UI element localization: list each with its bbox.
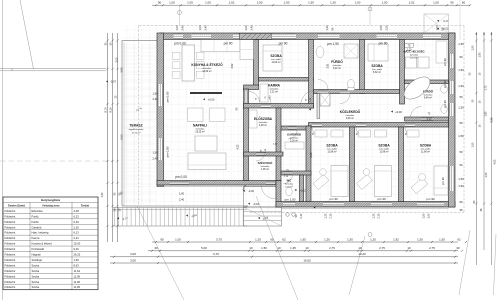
svg-text:pm 30: pm 30 (377, 197, 386, 201)
pavement edge south (281, 207, 449, 209)
svg-text:burkolata: burkolata (346, 114, 355, 117)
wall bath1 | bedroom n (360, 40, 365, 94)
door gap corridor-bedroom2 (356, 123, 366, 127)
svg-text:1,50: 1,50 (458, 84, 464, 88)
svg-text:2,20 m²: 2,20 m² (285, 185, 293, 188)
svg-text:62: 62 (282, 237, 286, 241)
svg-text:1,50: 1,50 (458, 106, 464, 110)
svg-text:11,96 m²: 11,96 m² (327, 151, 336, 154)
svg-text:1,50: 1,50 (261, 246, 267, 250)
svg-text:Földszint: Földszint (5, 285, 16, 289)
exterior wall vestibule west jog (276, 181, 281, 208)
svg-text:5,00: 5,00 (201, 246, 207, 250)
svg-text:6,49 m²: 6,49 m² (424, 97, 432, 100)
svg-text:3,90: 3,90 (120, 67, 124, 73)
svg-text:lam. padló: lam. padló (372, 69, 382, 71)
svg-text:1,20: 1,20 (324, 237, 330, 241)
svg-text:KONYHA & ÉTKEZŐ: KONYHA & ÉTKEZŐ (191, 62, 223, 67)
svg-text:6,22 m²: 6,22 m² (333, 67, 341, 70)
svg-text:lam. padló: lam. padló (379, 149, 389, 151)
svg-text:1,50: 1,50 (458, 177, 464, 181)
svg-text:1,00: 1,00 (435, 25, 439, 31)
svg-text:Szoba: Szoba (32, 274, 40, 278)
svg-text:50: 50 (459, 55, 463, 59)
svg-text:1,96: 1,96 (74, 258, 80, 262)
datum circle top mid (368, 7, 372, 11)
level marker -0,02 east of porch (295, 189, 297, 191)
svg-text:3,62: 3,62 (231, 63, 234, 68)
wall bath2 south (405, 117, 449, 121)
datum circle top left (178, 11, 182, 15)
door gap living-hall (244, 91, 248, 103)
svg-text:ELŐSZOBA: ELŐSZOBA (254, 116, 273, 121)
svg-text:1,50: 1,50 (308, 1, 314, 5)
svg-text:26,25: 26,25 (74, 253, 81, 257)
svg-text:pm 0,00: pm 0,00 (166, 146, 170, 157)
window bathroom north (318, 34, 340, 39)
svg-text:8,63: 8,63 (74, 263, 80, 267)
window utility north (423, 34, 441, 39)
eaves dashed outline (139, 25, 464, 27)
svg-text:1,50: 1,50 (427, 213, 430, 218)
svg-text:11,96: 11,96 (74, 274, 81, 278)
svg-text:90: 90 (160, 237, 164, 241)
svg-text:SZOBA: SZOBA (326, 144, 338, 148)
svg-text:10: 10 (277, 246, 281, 250)
svg-text:1,50: 1,50 (472, 45, 475, 50)
svg-text:Szoba: Szoba (32, 263, 40, 267)
svg-text:60: 60 (462, 1, 466, 5)
svg-text:16,50: 16,50 (303, 258, 311, 262)
svg-text:60: 60 (459, 200, 463, 204)
svg-text:pm 1,00: pm 1,00 (285, 198, 296, 202)
bedroom n bed (368, 44, 388, 61)
door size label hazt (405, 43, 414, 47)
svg-text:burkolata: burkolata (259, 121, 268, 124)
entry door south gap (266, 181, 275, 184)
svg-text:FÜRDŐ: FÜRDŐ (423, 89, 434, 94)
wall hall north (pantry bottom) (244, 104, 314, 109)
svg-text:Emelet (Szint): Emelet (Szint) (8, 203, 25, 207)
svg-text:pm 90: pm 90 (443, 100, 447, 108)
svg-text:2,21 m²: 2,21 m² (270, 91, 278, 94)
svg-text:10: 10 (407, 246, 411, 250)
svg-text:26,25 m²: 26,25 m² (195, 131, 204, 134)
wall bedroom2 | bedroom3 (399, 127, 404, 202)
svg-text:1,05: 1,05 (187, 1, 193, 5)
svg-text:4,32: 4,32 (237, 144, 240, 149)
svg-text:pm 90: pm 90 (426, 197, 435, 201)
wall hall | vestibule divider (244, 152, 284, 156)
wall utility | bath2 divider (405, 80, 449, 84)
svg-text:NAPPALI: NAPPALI (193, 124, 207, 128)
window living west lower (158, 138, 163, 160)
bedroom2 desk and chair (357, 174, 373, 189)
door gap corridor-bedroom n (340, 90, 350, 93)
svg-text:1,50: 1,50 (439, 237, 445, 241)
window east utility (449, 54, 454, 68)
svg-text:burkolata: burkolata (285, 182, 294, 185)
svg-text:2,40: 2,40 (152, 97, 158, 101)
flag wc corner (314, 206, 316, 208)
svg-text:1,50: 1,50 (417, 237, 423, 241)
svg-text:1,50: 1,50 (152, 151, 158, 155)
svg-text:2,75: 2,75 (429, 246, 435, 250)
exterior wall east (449, 33, 456, 207)
level marker -2,77 (117, 217, 119, 219)
exterior wall north (160, 33, 455, 40)
svg-text:3,00: 3,00 (116, 57, 119, 62)
svg-text:2,21: 2,21 (74, 236, 80, 240)
svg-text:1,62: 1,62 (229, 1, 235, 5)
svg-text:pm 0,00: pm 0,00 (174, 42, 186, 46)
svg-text:burkolata: burkolata (424, 94, 433, 97)
svg-text:burkolata: burkolata (290, 137, 299, 140)
svg-text:Földszint: Földszint (5, 280, 16, 284)
svg-text:Szoba: Szoba (32, 280, 40, 284)
svg-text:Földszint: Földszint (5, 231, 16, 235)
svg-text:8,62 m²: 8,62 m² (373, 71, 381, 74)
pantry shelves (260, 84, 268, 102)
svg-text:Szoba: Szoba (32, 269, 40, 273)
svg-text:SZOBA: SZOBA (420, 144, 432, 148)
svg-text:Földszint: Földszint (5, 214, 16, 218)
window east bedroom3 (449, 166, 454, 191)
level marker -0,04 porch (248, 203, 250, 205)
svg-text:9,46: 9,46 (74, 247, 80, 251)
svg-text:10: 10 (249, 246, 253, 250)
door living south (terrace) (170, 181, 189, 184)
terrain diagonal lower-left (137, 206, 184, 300)
svg-text:65: 65 (270, 237, 274, 241)
svg-text:Konyha & étkező: Konyha & étkező (32, 242, 53, 246)
svg-text:+0,00: +0,00 (395, 110, 402, 114)
svg-text:Fürdő: Fürdő (32, 214, 40, 218)
bottom chain 3 (110, 256, 458, 258)
living sofa (188, 153, 226, 170)
window north small (233, 34, 240, 39)
svg-text:2,40: 2,40 (180, 25, 184, 31)
window kitchen north (174, 34, 184, 39)
svg-text:8,10: 8,10 (109, 107, 113, 113)
door gap hall-pantry (261, 104, 271, 108)
svg-text:2,10: 2,10 (427, 118, 432, 121)
svg-text:1,50: 1,50 (284, 1, 290, 5)
door gap hall-vestibule (256, 153, 266, 156)
canopy level -0,02 (437, 28, 439, 30)
svg-text:1,50: 1,50 (458, 184, 464, 188)
svg-text:pm 90: pm 90 (379, 42, 388, 46)
terrain diagonal below porch (256, 196, 298, 300)
svg-text:pm 1,90: pm 1,90 (327, 42, 339, 46)
corridor thin wall + cupboard (317, 94, 320, 119)
wall hall | wardrobe/wc (276, 108, 281, 181)
svg-text:62: 62 (457, 237, 461, 241)
svg-text:11,96: 11,96 (74, 285, 81, 289)
svg-text:1,50: 1,50 (379, 25, 383, 31)
svg-text:Földszint: Földszint (5, 247, 16, 251)
svg-text:50: 50 (459, 150, 463, 154)
level marker +0,00 corridor (391, 110, 393, 112)
svg-text:1,20: 1,20 (325, 25, 329, 31)
svg-text:4,48 m²: 4,48 m² (259, 124, 267, 127)
svg-text:Földszint: Földszint (5, 236, 16, 240)
wall bedroom n | utility (400, 40, 405, 105)
svg-text:1,75: 1,75 (485, 85, 488, 90)
svg-text:5,00: 5,00 (120, 134, 124, 140)
svg-text:TERASZ: TERASZ (129, 124, 142, 128)
bath1 toilet (348, 79, 355, 88)
svg-text:1,00: 1,00 (175, 237, 181, 241)
svg-text:6,03: 6,03 (310, 152, 313, 157)
svg-text:SZOBA: SZOBA (270, 54, 282, 58)
svg-text:6,13 m²: 6,13 m² (410, 57, 418, 60)
svg-text:burkolata: burkolata (203, 67, 212, 70)
svg-text:Szoba: Szoba (32, 285, 40, 289)
svg-text:-0,02: -0,02 (300, 188, 306, 192)
top dimension chain line (152, 4, 470, 6)
svg-text:KÖZLEKEDŐ: KÖZLEKEDŐ (340, 109, 361, 114)
door gap corridor-bedroom3 (405, 123, 415, 127)
svg-text:2,75: 2,75 (329, 246, 335, 250)
svg-text:Földszint: Földszint (5, 274, 16, 278)
garden steps strip south (113, 207, 247, 209)
wall corridor north (bath1/bedroom bottoms) (314, 90, 400, 94)
window east bath2 b (449, 103, 454, 116)
svg-text:pm 90: pm 90 (443, 58, 447, 66)
svg-text:2,10: 2,10 (407, 49, 412, 52)
terrain diagonal far right (459, 230, 470, 295)
svg-text:1,35: 1,35 (290, 246, 296, 250)
svg-text:pm 90: pm 90 (279, 42, 288, 46)
svg-text:2,26: 2,26 (74, 225, 80, 229)
svg-text:pm 90: pm 90 (224, 42, 233, 46)
svg-text:1,20: 1,20 (255, 237, 261, 241)
level marker +0,00 living (203, 98, 205, 100)
svg-text:1,50: 1,50 (384, 25, 388, 31)
svg-text:Földszint: Földszint (5, 253, 16, 257)
svg-text:4,48: 4,48 (74, 209, 80, 213)
level marker -0,02 porch (243, 190, 245, 192)
svg-text:36: 36 (459, 208, 463, 212)
svg-text:Fürdő: Fürdő (32, 220, 40, 224)
svg-text:6,49: 6,49 (74, 220, 80, 224)
door gap wardrobe (288, 127, 297, 130)
svg-text:1,50: 1,50 (382, 1, 388, 5)
window east bath2 a (449, 81, 454, 94)
svg-text:1,20: 1,20 (370, 237, 376, 241)
svg-text:11,64 m²: 11,64 m² (271, 61, 280, 64)
svg-text:1,00: 1,00 (169, 1, 175, 5)
bedroom1 desk and chair (313, 174, 329, 189)
svg-text:2,75: 2,75 (379, 246, 385, 250)
svg-text:3,00: 3,00 (130, 252, 136, 256)
terrace grid (paving) (125, 44, 127, 204)
site boundary diagonal top-left (20, 0, 34, 69)
svg-text:Előszoba: Előszoba (32, 209, 44, 213)
canopy level -0,17 (437, 20, 439, 22)
svg-text:SZOBA: SZOBA (371, 64, 383, 68)
svg-text:15,00: 15,00 (74, 242, 81, 246)
svg-text:pm 0,00: pm 0,00 (166, 91, 170, 102)
wall bedroom1 | bedroom2 (350, 127, 355, 202)
svg-text:burkolata: burkolata (261, 165, 270, 168)
entrance porch steps (244, 207, 282, 226)
svg-text:1,50: 1,50 (458, 68, 464, 72)
right chain lines (475, 32, 477, 265)
svg-text:11,96: 11,96 (74, 280, 81, 284)
bottom chain 1 (152, 241, 458, 243)
svg-text:Helyiséglista: Helyiséglista (41, 198, 60, 202)
svg-text:1,52: 1,52 (409, 1, 415, 5)
svg-text:Földszint: Földszint (5, 269, 16, 273)
window bedroom1 north (272, 34, 296, 39)
svg-text:1,50: 1,50 (423, 213, 426, 218)
kitchen tall unit (240, 40, 254, 60)
svg-text:3,00: 3,00 (130, 258, 136, 262)
wardrobe closet (285, 142, 304, 149)
svg-text:50: 50 (459, 163, 463, 167)
wall wardrobe north (276, 126, 311, 130)
svg-text:-0,02: -0,02 (248, 189, 254, 193)
wc toilet (286, 187, 292, 196)
wall hall/wardrobe | bedroom1 (306, 126, 311, 202)
svg-text:pm 90: pm 90 (441, 177, 445, 185)
living rug bar (190, 92, 222, 94)
datum circle bottom (368, 233, 372, 237)
level marker -0,19 porch (258, 217, 260, 219)
bath1 sink (316, 47, 324, 58)
svg-text:30: 30 (456, 246, 460, 250)
exterior wall south of bedrooms (276, 202, 455, 208)
svg-text:1,00: 1,00 (179, 192, 185, 196)
dining table (182, 45, 195, 81)
svg-text:10: 10 (305, 246, 309, 250)
svg-text:burkolata: burkolata (196, 128, 205, 131)
bath2 tub (400, 73, 434, 104)
bath2 toilet (441, 105, 447, 114)
svg-text:-0,04: -0,04 (253, 202, 259, 206)
living armchair 2 (210, 108, 226, 122)
svg-text:1,50: 1,50 (485, 172, 488, 177)
door gap corridor-bedroom1 (312, 123, 322, 127)
level marker -0,07 (106, 80, 108, 82)
svg-text:8,70: 8,70 (104, 107, 108, 113)
svg-text:9,46 m²: 9,46 m² (346, 117, 354, 120)
svg-text:1,00: 1,00 (433, 1, 439, 5)
exterior wall west (157, 33, 164, 187)
bedroom2 bed (375, 166, 392, 197)
svg-text:Közlekedő: Közlekedő (32, 247, 45, 251)
svg-text:pm 0,00: pm 0,00 (175, 175, 187, 179)
entry door arc out (261, 185, 275, 199)
svg-text:Helyiség neve: Helyiség neve (43, 203, 61, 207)
svg-text:10,20: 10,20 (358, 252, 366, 256)
svg-text:2,10: 2,10 (329, 213, 332, 218)
svg-text:1,90: 1,90 (479, 52, 482, 57)
svg-text:Földszint: Földszint (5, 220, 16, 224)
door gap corridor-bath1 (318, 90, 328, 93)
svg-text:lam. padló: lam. padló (271, 59, 281, 61)
wall kitchen | room1/pantry (254, 40, 259, 86)
exterior wall south of living room (157, 181, 276, 186)
svg-text:3,70: 3,70 (216, 237, 222, 241)
svg-text:1,50: 1,50 (355, 1, 361, 5)
wall living | hall/vestibule (244, 89, 249, 181)
svg-text:Földszint: Földszint (5, 209, 16, 213)
svg-text:6,13: 6,13 (74, 231, 80, 235)
svg-text:1,50: 1,50 (458, 42, 464, 46)
svg-text:Kamra: Kamra (32, 236, 40, 240)
svg-text:KAMRA: KAMRA (268, 84, 281, 88)
svg-text:Földszint: Földszint (5, 263, 16, 267)
bedroom1 bed (331, 166, 348, 197)
svg-text:Házt. helyiség: Házt. helyiség (32, 231, 49, 235)
svg-text:1,50: 1,50 (152, 92, 158, 96)
svg-text:6,23: 6,23 (74, 214, 80, 218)
svg-text:1,20: 1,20 (325, 213, 328, 218)
door arc eloszoba-corridor (301, 90, 318, 107)
svg-text:1,50: 1,50 (458, 134, 464, 138)
svg-text:FÜRDŐ: FÜRDŐ (331, 59, 343, 64)
svg-text:2,40: 2,40 (152, 156, 158, 160)
window south bedroom3 (417, 202, 444, 206)
window south wc small (283, 202, 295, 206)
dash-dot setback line left (0, 160, 113, 162)
canopy outline NE (424, 14, 449, 33)
svg-text:11,96 m²: 11,96 m² (379, 151, 388, 154)
window bedroom2 north (377, 34, 398, 39)
terrain diagonal right-center (349, 236, 365, 295)
svg-text:50: 50 (459, 95, 463, 99)
svg-text:4,55: 4,55 (494, 159, 497, 164)
svg-text:Szélfogó: Szélfogó (32, 258, 43, 262)
terrain line right edge (494, 234, 497, 295)
svg-text:1,50: 1,50 (472, 142, 475, 147)
north wall dark pier (240, 33, 273, 39)
svg-text:15,00 m²: 15,00 m² (202, 70, 211, 73)
svg-text:50: 50 (459, 121, 463, 125)
level marker -1,64 steps (186, 214, 188, 216)
dim extension line top right (459, 0, 461, 40)
svg-text:2,40: 2,40 (179, 197, 185, 201)
svg-text:1,00: 1,00 (175, 25, 179, 31)
svg-text:1,96 m²: 1,96 m² (261, 168, 269, 171)
svg-text:2,40: 2,40 (203, 25, 207, 31)
wall room1/pantry divider (259, 78, 314, 82)
svg-text:3,81: 3,81 (327, 63, 330, 68)
svg-text:1,20: 1,20 (330, 1, 336, 5)
wall wc east (300, 175, 304, 202)
living armchair 1 (188, 108, 204, 122)
svg-text:11,96 m²: 11,96 m² (421, 151, 430, 154)
svg-text:1,00: 1,00 (244, 25, 248, 31)
svg-text:Földszint: Földszint (5, 258, 16, 262)
window kitchen north 2 (192, 34, 212, 39)
terrace outline (122, 40, 157, 42)
svg-text:2,40: 2,40 (249, 25, 253, 31)
downspout circles (286, 213, 290, 217)
svg-text:lam. padló: lam. padló (421, 149, 431, 151)
svg-text:WC: WC (287, 178, 292, 182)
svg-text:-0,17: -0,17 (443, 20, 449, 23)
svg-text:1,30: 1,30 (101, 192, 104, 197)
svg-text:Terület: Terület (81, 203, 89, 207)
svg-text:1,80: 1,80 (485, 111, 488, 116)
wall wardrobe south / wc north (281, 171, 311, 175)
svg-text:pm 90: pm 90 (443, 80, 447, 88)
bottom chain 2 (148, 250, 458, 252)
